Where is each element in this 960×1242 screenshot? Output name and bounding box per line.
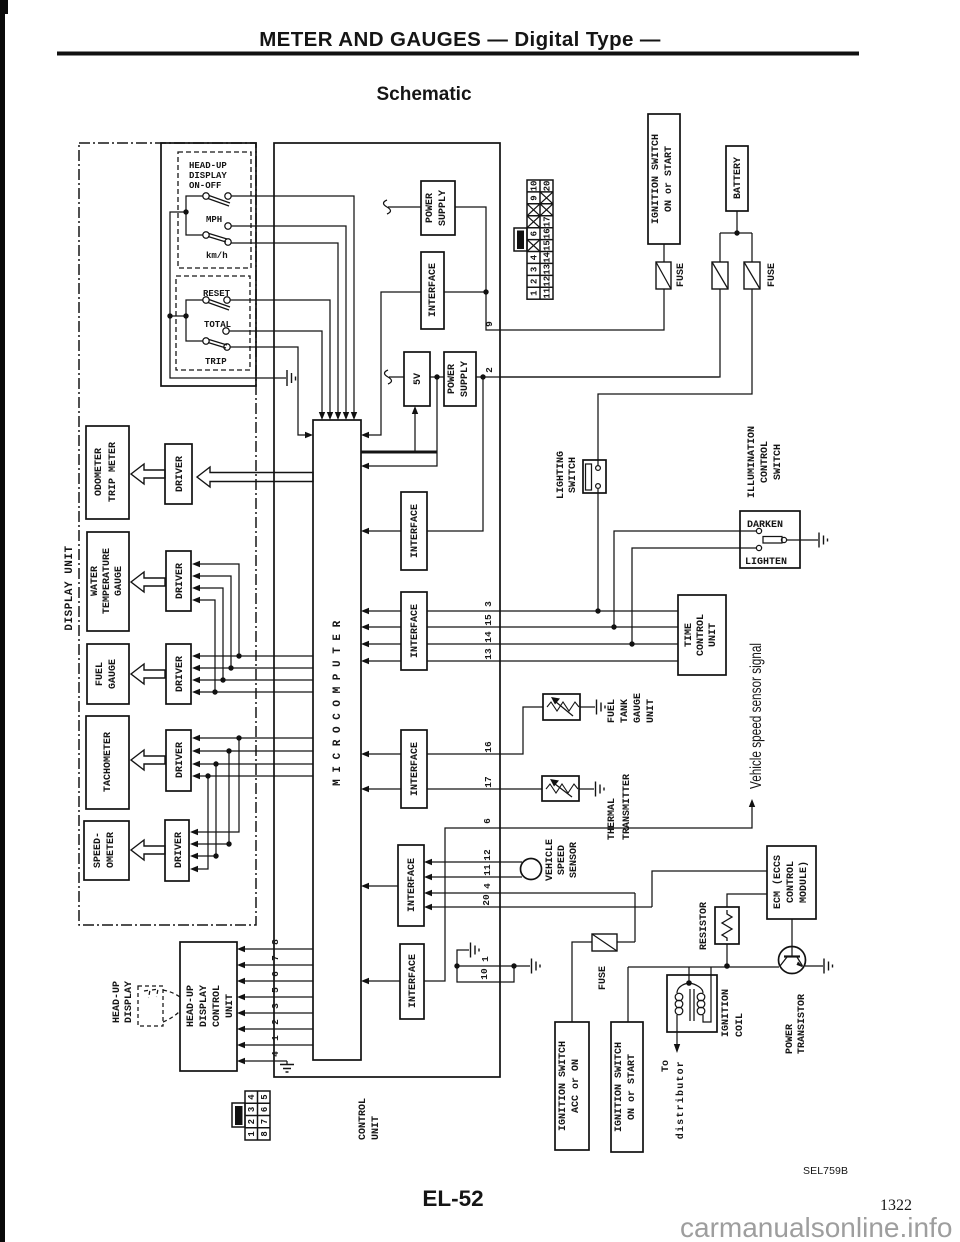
svg-text:OMETER: OMETER: [106, 832, 117, 868]
svg-text:9: 9: [530, 195, 540, 200]
svg-text:DISPLAY UNIT: DISPLAY UNIT: [64, 545, 76, 630]
svg-text:MICROCOMPUTER: MICROCOMPUTER: [332, 614, 344, 786]
svg-text:14: 14: [483, 631, 494, 643]
svg-text:SENSOR: SENSOR: [569, 842, 580, 878]
svg-text:15: 15: [483, 614, 494, 626]
svg-text:11: 11: [543, 287, 553, 298]
svg-text:WATER: WATER: [90, 566, 101, 596]
svg-text:UNIT: UNIT: [646, 699, 657, 723]
svg-text:IGNITION SWITCH: IGNITION SWITCH: [558, 1041, 569, 1131]
svg-text:SPEED: SPEED: [557, 845, 568, 875]
svg-text:DARKEN: DARKEN: [747, 520, 783, 531]
svg-text:DRIVER: DRIVER: [174, 832, 185, 868]
svg-text:3: 3: [270, 1003, 281, 1009]
svg-text:SPEED-: SPEED-: [93, 832, 104, 868]
svg-text:ON-OFF: ON-OFF: [189, 181, 221, 191]
svg-text:11: 11: [482, 864, 493, 876]
svg-text:SUPPLY: SUPPLY: [438, 190, 449, 226]
svg-text:FUSE: FUSE: [676, 263, 687, 287]
svg-text:FUSE: FUSE: [598, 966, 609, 990]
svg-text:METER AND GAUGES — Digital Typ: METER AND GAUGES — Digital Type —: [259, 28, 661, 51]
svg-text:DISPLAY: DISPLAY: [199, 985, 210, 1027]
svg-text:ECM (ECCS: ECM (ECCS: [772, 855, 784, 909]
svg-text:DRIVER: DRIVER: [175, 563, 186, 599]
svg-text:INTERFACE: INTERFACE: [408, 954, 419, 1008]
svg-text:TRANSISTOR: TRANSISTOR: [797, 994, 808, 1054]
svg-text:SEL759B: SEL759B: [803, 1165, 848, 1177]
svg-text:17: 17: [483, 776, 494, 788]
svg-text:RESISTOR: RESISTOR: [699, 902, 710, 950]
svg-text:13: 13: [543, 264, 553, 275]
svg-text:8: 8: [270, 939, 281, 945]
svg-text:UNIT: UNIT: [708, 623, 719, 647]
svg-text:HEAD-UP: HEAD-UP: [186, 985, 197, 1027]
svg-text:15: 15: [543, 240, 553, 251]
svg-text:10: 10: [530, 181, 540, 192]
svg-text:4: 4: [530, 254, 540, 260]
svg-text:COIL: COIL: [735, 1013, 746, 1037]
svg-text:TRIP METER: TRIP METER: [108, 442, 119, 502]
svg-text:INTERFACE: INTERFACE: [410, 504, 421, 558]
svg-text:ACC or ON: ACC or ON: [571, 1059, 582, 1113]
svg-text:8: 8: [260, 1131, 270, 1136]
svg-text:3: 3: [530, 267, 540, 272]
svg-text:ODOMETER: ODOMETER: [94, 448, 105, 496]
svg-text:UNIT: UNIT: [225, 994, 236, 1018]
svg-text:SWITCH: SWITCH: [568, 457, 579, 493]
svg-text:16: 16: [483, 741, 494, 753]
svg-text:FUEL: FUEL: [607, 699, 618, 723]
svg-text:SUPPLY: SUPPLY: [460, 361, 471, 397]
svg-text:5: 5: [260, 1094, 270, 1099]
svg-text:HEAD-UP: HEAD-UP: [112, 981, 123, 1023]
svg-text:INTERFACE: INTERFACE: [428, 263, 439, 317]
svg-text:TACHOMETER: TACHOMETER: [103, 732, 114, 792]
svg-text:4: 4: [482, 883, 493, 889]
svg-text:14: 14: [543, 252, 553, 263]
svg-text:CONTROL: CONTROL: [212, 985, 223, 1027]
svg-text:TRIP: TRIP: [205, 357, 227, 367]
svg-text:TEMPERATURE: TEMPERATURE: [102, 548, 113, 614]
svg-text:20: 20: [481, 894, 492, 906]
svg-text:ILLUMINATION: ILLUMINATION: [747, 426, 758, 498]
svg-text:IGNITION SWITCH: IGNITION SWITCH: [651, 134, 662, 224]
svg-text:1: 1: [530, 290, 540, 296]
svg-text:10: 10: [479, 968, 490, 980]
svg-text:POWER: POWER: [447, 364, 458, 394]
svg-text:6: 6: [260, 1107, 270, 1112]
svg-text:CONTROL: CONTROL: [696, 614, 707, 656]
svg-text:UNIT: UNIT: [371, 1116, 382, 1140]
svg-text:1: 1: [480, 956, 491, 962]
svg-text:2: 2: [530, 279, 540, 284]
svg-text:GAUGE: GAUGE: [108, 659, 119, 689]
svg-text:TANK: TANK: [620, 699, 631, 723]
svg-text:INTERFACE: INTERFACE: [407, 858, 418, 912]
svg-text:IGNITION: IGNITION: [721, 989, 732, 1037]
svg-text:5: 5: [270, 987, 281, 993]
svg-text:EL-52: EL-52: [422, 1186, 483, 1211]
svg-text:17: 17: [543, 216, 553, 227]
svg-text:2: 2: [270, 1019, 281, 1025]
svg-text:2: 2: [247, 1119, 257, 1124]
svg-text:LIGHTEN: LIGHTEN: [745, 557, 787, 568]
svg-text:DISPLAY: DISPLAY: [189, 171, 227, 181]
svg-text:POWER: POWER: [785, 1024, 796, 1054]
svg-text:SWITCH: SWITCH: [773, 444, 784, 480]
svg-text:1: 1: [270, 1035, 281, 1041]
svg-text:POWER: POWER: [425, 193, 436, 223]
svg-text:HEAD-UP: HEAD-UP: [189, 161, 227, 171]
svg-text:6: 6: [482, 818, 493, 824]
svg-text:16: 16: [543, 228, 553, 239]
svg-text:2: 2: [484, 367, 495, 373]
svg-text:CONTROL: CONTROL: [786, 861, 797, 903]
svg-text:GAUGE: GAUGE: [114, 566, 125, 596]
svg-text:km/h: km/h: [206, 251, 228, 261]
svg-text:20: 20: [543, 181, 553, 192]
svg-text:GAUGE: GAUGE: [633, 693, 644, 723]
svg-text:4: 4: [247, 1094, 257, 1100]
svg-text:INTERFACE: INTERFACE: [410, 742, 421, 796]
svg-text:MODULE): MODULE): [798, 861, 810, 903]
svg-text:INTERFACE: INTERFACE: [410, 604, 421, 658]
svg-text:distributor: distributor: [675, 1060, 687, 1139]
svg-text:Vehicle speed sensor signal: Vehicle speed sensor signal: [748, 643, 765, 789]
svg-text:6: 6: [530, 231, 540, 236]
svg-text:MPH: MPH: [206, 215, 222, 225]
svg-text:VEHICLE: VEHICLE: [545, 839, 556, 881]
svg-text:CONTROL: CONTROL: [760, 441, 771, 483]
svg-text:1: 1: [247, 1131, 257, 1137]
svg-text:Schematic: Schematic: [376, 84, 471, 105]
svg-text:5V: 5V: [413, 373, 424, 385]
svg-text:7: 7: [270, 955, 281, 961]
svg-text:4: 4: [270, 1051, 281, 1057]
svg-text:THERMAL: THERMAL: [607, 798, 618, 840]
svg-text:7: 7: [260, 1119, 270, 1124]
svg-text:12: 12: [482, 849, 493, 861]
svg-text:FUSE: FUSE: [767, 263, 778, 287]
svg-text:6: 6: [270, 971, 281, 977]
svg-text:12: 12: [543, 276, 553, 287]
svg-text:ON or START: ON or START: [627, 1054, 638, 1120]
svg-text:13: 13: [483, 648, 494, 660]
svg-text:TIME: TIME: [684, 623, 695, 647]
svg-text:9: 9: [484, 321, 495, 327]
svg-text:3: 3: [483, 601, 494, 607]
svg-text:DRIVER: DRIVER: [175, 656, 186, 692]
svg-text:3: 3: [247, 1107, 257, 1112]
svg-text:DRIVER: DRIVER: [175, 742, 186, 778]
svg-text:carmanualsonline.info: carmanualsonline.info: [680, 1212, 952, 1242]
svg-text:IGNITION SWITCH: IGNITION SWITCH: [614, 1042, 625, 1132]
svg-text:LIGHTING: LIGHTING: [556, 451, 567, 499]
svg-text:BATTERY: BATTERY: [733, 157, 744, 199]
svg-text:TRANSMITTER: TRANSMITTER: [622, 774, 633, 840]
svg-text:CONTROL: CONTROL: [358, 1098, 369, 1140]
svg-text:DRIVER: DRIVER: [175, 456, 186, 492]
svg-text:DISPLAY: DISPLAY: [124, 981, 135, 1023]
svg-text:To: To: [661, 1060, 672, 1072]
svg-text:FUEL: FUEL: [95, 662, 106, 686]
svg-text:ON or START: ON or START: [664, 146, 675, 212]
